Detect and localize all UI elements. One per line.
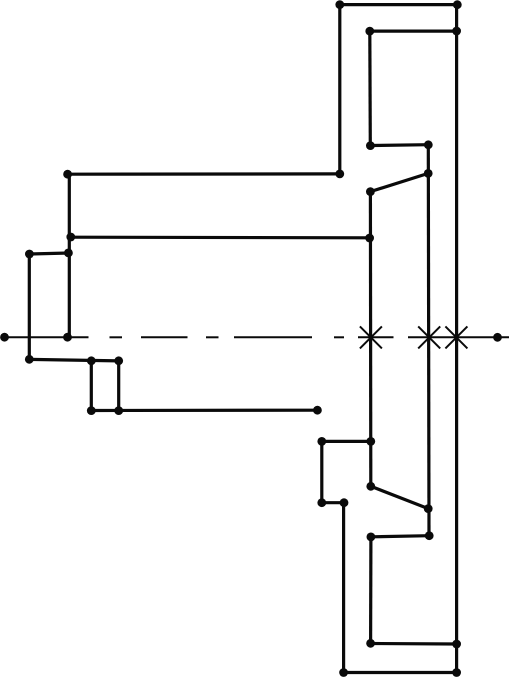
X mark at centerline web crossing: [360, 326, 382, 348]
node centerline right end: [493, 333, 502, 342]
node lower hub left: [367, 533, 376, 542]
node keyway top-right: [114, 356, 123, 365]
node lower hub right: [425, 531, 434, 540]
wire keyway left vertical: [90, 361, 93, 411]
wire lower notch horizontal: [322, 501, 344, 504]
node rim-left junction: [335, 170, 344, 179]
centerline segment 4: [358, 336, 394, 338]
centerline segment 3: [234, 336, 312, 338]
node small step right: [64, 249, 73, 258]
wire lower left horizontal: [29, 359, 118, 361]
node lower web left: [317, 437, 326, 446]
node chamfer top: [424, 169, 433, 178]
node lower notch bottom-left: [317, 498, 326, 507]
wire lower hub horizontal: [371, 536, 429, 537]
wire bottom outer horizontal: [344, 671, 457, 674]
wire lower web horizontal: [322, 440, 371, 443]
node hub step right: [424, 140, 433, 149]
wire lower web vertical: [369, 537, 372, 644]
node keyway top-left: [87, 356, 96, 365]
wire second bottom horizontal: [371, 642, 457, 646]
wire keyway right vertical: [117, 361, 120, 411]
node keyway bottom-left: [87, 406, 96, 415]
wire small left vertical: [28, 254, 31, 359]
wire second top horizontal: [370, 30, 457, 33]
node second bottom left: [366, 639, 375, 648]
node lower notch bottom-right: [340, 498, 349, 507]
node top-left of outer rim: [335, 0, 344, 9]
node second row left: [365, 27, 374, 36]
node centerline left end: [0, 333, 9, 342]
centerline dash 3: [334, 336, 344, 338]
centerline segment 1: [5, 336, 89, 338]
node second row right: [452, 27, 461, 36]
X mark at centerline rim crossing: [445, 326, 467, 348]
wire small step horizontal left: [29, 253, 69, 254]
wire long middle horizontal: [69, 236, 370, 240]
node lower chamfer bottom: [424, 504, 433, 513]
X mark at centerline hub crossing: [418, 326, 440, 348]
node hub step left: [366, 141, 375, 150]
wire long left horizontal upper: [68, 172, 340, 176]
wire left hub vertical: [68, 174, 71, 337]
node lower chamfer top: [366, 482, 375, 491]
centerline segment 5: [408, 336, 509, 338]
wire slanted chamfer upper: [370, 173, 428, 191]
node lower web right: [366, 437, 375, 446]
wire hub long right vertical: [427, 145, 431, 536]
centerline dash 1: [110, 336, 123, 338]
wire lower rim inner vertical: [342, 503, 345, 673]
node left end middle horizontal: [66, 233, 75, 242]
wire hub top horizontal step: [370, 143, 428, 147]
node hub vertical on centerline: [63, 333, 72, 342]
node second bottom right: [452, 640, 461, 649]
node keyway bottom-right: [114, 406, 123, 415]
node bottom-right corner: [452, 668, 461, 677]
node left end upper horizontal: [63, 170, 72, 179]
wire web top vertical: [368, 31, 372, 146]
wire slanted chamfer lower: [371, 486, 428, 508]
node lower-left corner: [25, 355, 34, 364]
wire bottom shaft horizontal: [91, 409, 317, 412]
wire lower notch left vertical: [320, 441, 323, 502]
node bottom-left corner: [339, 668, 348, 677]
wire rim top left vertical: [338, 5, 341, 174]
wire center web vertical: [369, 192, 373, 487]
centerline segment 2: [141, 336, 188, 338]
centerline dash 2: [206, 336, 219, 338]
node top-right of outer rim: [453, 0, 462, 9]
wire right outer vertical: [455, 5, 458, 673]
node bottom shaft right end: [313, 406, 322, 415]
node small step left: [25, 250, 34, 259]
wire top outer horizontal: [340, 3, 458, 6]
node right end middle horizontal: [365, 234, 374, 243]
node chamfer bottom: [366, 187, 375, 196]
